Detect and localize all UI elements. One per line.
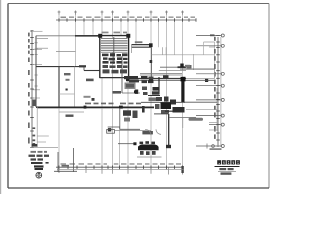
bathroom fixtures dark (155, 97, 185, 114)
left dimension line (30, 30, 34, 148)
dining leader dot (133, 142, 136, 145)
leader with label (right of stairs) (160, 66, 186, 68)
small dim text right of circle (210, 148, 222, 150)
wall: left wing top light part (36, 35, 75, 37)
dark dot centre (134, 91, 137, 94)
wall: main bottom long (36, 106, 154, 108)
dark mark at x109 (108, 128, 111, 131)
wall: left wing interior line3 (56, 51, 76, 53)
title second rule (218, 170, 236, 172)
right dimension line (216, 36, 221, 148)
top dimension line (56, 18, 196, 22)
kitchen fixtures cluster (141, 76, 160, 101)
wall: left wing mid horizontal (36, 66, 84, 68)
leader text blob top right (210, 34, 215, 36)
wall: lower-left porch vertical (36, 107, 38, 147)
bottom dimension text blobs (61, 163, 182, 164)
bottom grid stubs below dimension (59, 167, 183, 174)
right wing lines lower (209, 123, 217, 130)
bottom dimension line (56, 166, 184, 170)
stair lower fixtures (103, 65, 128, 73)
wall column blobs on bottom wall (84, 106, 87, 109)
dark stub tick at x182.5 (181, 166, 183, 173)
wall: lower-left interior line (59, 111, 84, 113)
dining furniture dark cluster (138, 141, 171, 155)
detail circle symbol (36, 172, 42, 178)
balcony interior verticals (163, 47, 167, 55)
stair landing clutter (102, 53, 128, 63)
line under dining cluster (137, 156, 162, 158)
top-left extension leader (32, 30, 43, 32)
wall: main band y80.3 (126, 79, 215, 81)
dim text above stair wall (102, 32, 128, 34)
big dark column right band (181, 77, 186, 82)
cabinet small rect (107, 130, 115, 134)
balcony lower light line (186, 77, 215, 79)
wall: left wing top dark part (75, 35, 100, 37)
kitchen wall vertical x159 (158, 77, 160, 94)
notes leader line (30, 146, 58, 148)
wall: corridor line y73.6 (140, 73, 182, 75)
notes text block row4 (31, 162, 49, 164)
notes text block row2 (29, 155, 50, 157)
wall: middle block left vertical (131, 45, 133, 53)
dining leader line (118, 143, 134, 145)
wall: middle block right vertical (151, 47, 153, 78)
wall: step jog (83, 67, 85, 71)
right dimension text blobs (214, 37, 216, 139)
notes dark stacked block (34, 165, 44, 170)
wall: right thick vertical bar (181, 81, 184, 103)
wall: left wing interior shelf (36, 37, 48, 39)
small bathroom lower-centre outline (108, 109, 140, 130)
wall: right wing horizontal y69 (180, 68, 215, 70)
dark tick cluster at wall corner (33, 100, 36, 107)
balcony right edge bottom (214, 69, 216, 78)
lower-centre bathroom fixtures (123, 110, 138, 121)
notes text block bottom-left row1 (31, 151, 48, 153)
title date text (221, 172, 232, 174)
balcony top edge right (204, 41, 215, 43)
notes text block row3 (31, 158, 44, 160)
small dot below label (66, 89, 68, 91)
stair shaft corner columns (98, 34, 102, 38)
leader dark end (178, 66, 187, 68)
top dimension text blobs (61, 17, 196, 19)
wall: centre top (middle block) (132, 45, 152, 48)
balcony mid line (152, 54, 215, 56)
vertical x182.8 light (182, 117, 184, 128)
paper background (0, 0, 274, 194)
dark blob near wall corner (92, 98, 95, 101)
wall: main bottom double line (37, 108, 154, 110)
wall: y117.4 to right (170, 116, 197, 118)
stair shaft walls (100, 36, 130, 78)
porch tick marks (33, 127, 36, 144)
kitchen counter line (148, 95, 160, 97)
door arc marks lower centre (145, 129, 161, 135)
porch step lines (37, 136, 49, 142)
bottom-left small dimension bracket (54, 148, 77, 172)
wall: step lower horizontal (84, 70, 100, 72)
axis grid lines (light) (59, 14, 217, 170)
column mid-right (180, 64, 183, 68)
label text lower-left room (66, 115, 74, 117)
title block: floor-plan title glyphs (217, 160, 240, 164)
balcony short line y47 (209, 46, 215, 48)
right axis bubbles with leaders (196, 34, 224, 148)
text near wall corner (84, 96, 91, 98)
right wing line y109.7 (186, 109, 217, 111)
wall: left exterior (35, 36, 37, 107)
line y130.6 (114, 130, 151, 132)
leader label text (187, 65, 192, 68)
secondary faint bottom dim line (57, 169, 184, 171)
left dimension text blobs (28, 33, 30, 144)
top axis tick marks (58, 11, 184, 15)
wall: right wing y70.6 with dark ticks (159, 70, 186, 72)
bathroom bottom dark line (165, 110, 183, 112)
interior light horizontal y94 (59, 93, 75, 95)
wall: lower-left vertical (58, 67, 60, 107)
dimension text above bottom wall (85, 103, 141, 105)
right lower short dim line (196, 145, 221, 147)
balcony light vertical x203.5 (203, 42, 205, 55)
wall: bedroom divider x122 (121, 56, 123, 93)
wall ticks left of bathroom (142, 106, 145, 113)
title glyph gaps (214, 161, 239, 163)
columns on band (126, 77, 129, 81)
stair center divider (113, 37, 115, 64)
wall: main band y78.5 (126, 78, 186, 80)
bed furniture cluster centre (124, 76, 139, 94)
wall: bedroom bottom y93 (122, 92, 140, 94)
small marks on right lower dim (207, 144, 214, 149)
label bedroom far left (64, 73, 71, 75)
bathroom block top outline (141, 102, 185, 114)
bottom-left bracket text (62, 165, 70, 167)
label text centre (113, 91, 122, 94)
window tick on x151 wall (150, 60, 153, 63)
wall: stair shaft bottom (100, 77, 130, 79)
left extension leaders (32, 49, 42, 98)
column blob on balcony band (205, 79, 208, 82)
small text above middle block (135, 41, 143, 43)
wall: left wing interior line2 (36, 47, 48, 49)
balcony rail gray bar (189, 118, 204, 121)
door wedge on wall y66.6 (79, 65, 86, 67)
dark tick pair on y70.6 (163, 75, 169, 78)
label bedroom left (86, 79, 94, 82)
column at middle block corner (149, 43, 153, 47)
title scale text (219, 168, 226, 170)
stair treads (101, 39, 128, 53)
window ticks on left wall (35, 43, 38, 86)
scan edge artifact left (0, 0, 1, 194)
interior light vertical x74.5 (74, 67, 76, 107)
label living room (142, 131, 153, 134)
label right of column (185, 65, 190, 68)
wall: corridor line y75 (140, 74, 182, 76)
wall: right wing y102 (184, 101, 217, 103)
sheet border frame (7, 4, 9, 189)
wall: living room vertical (168, 114, 170, 148)
title underline (215, 166, 240, 168)
notes leader blob (32, 144, 38, 147)
